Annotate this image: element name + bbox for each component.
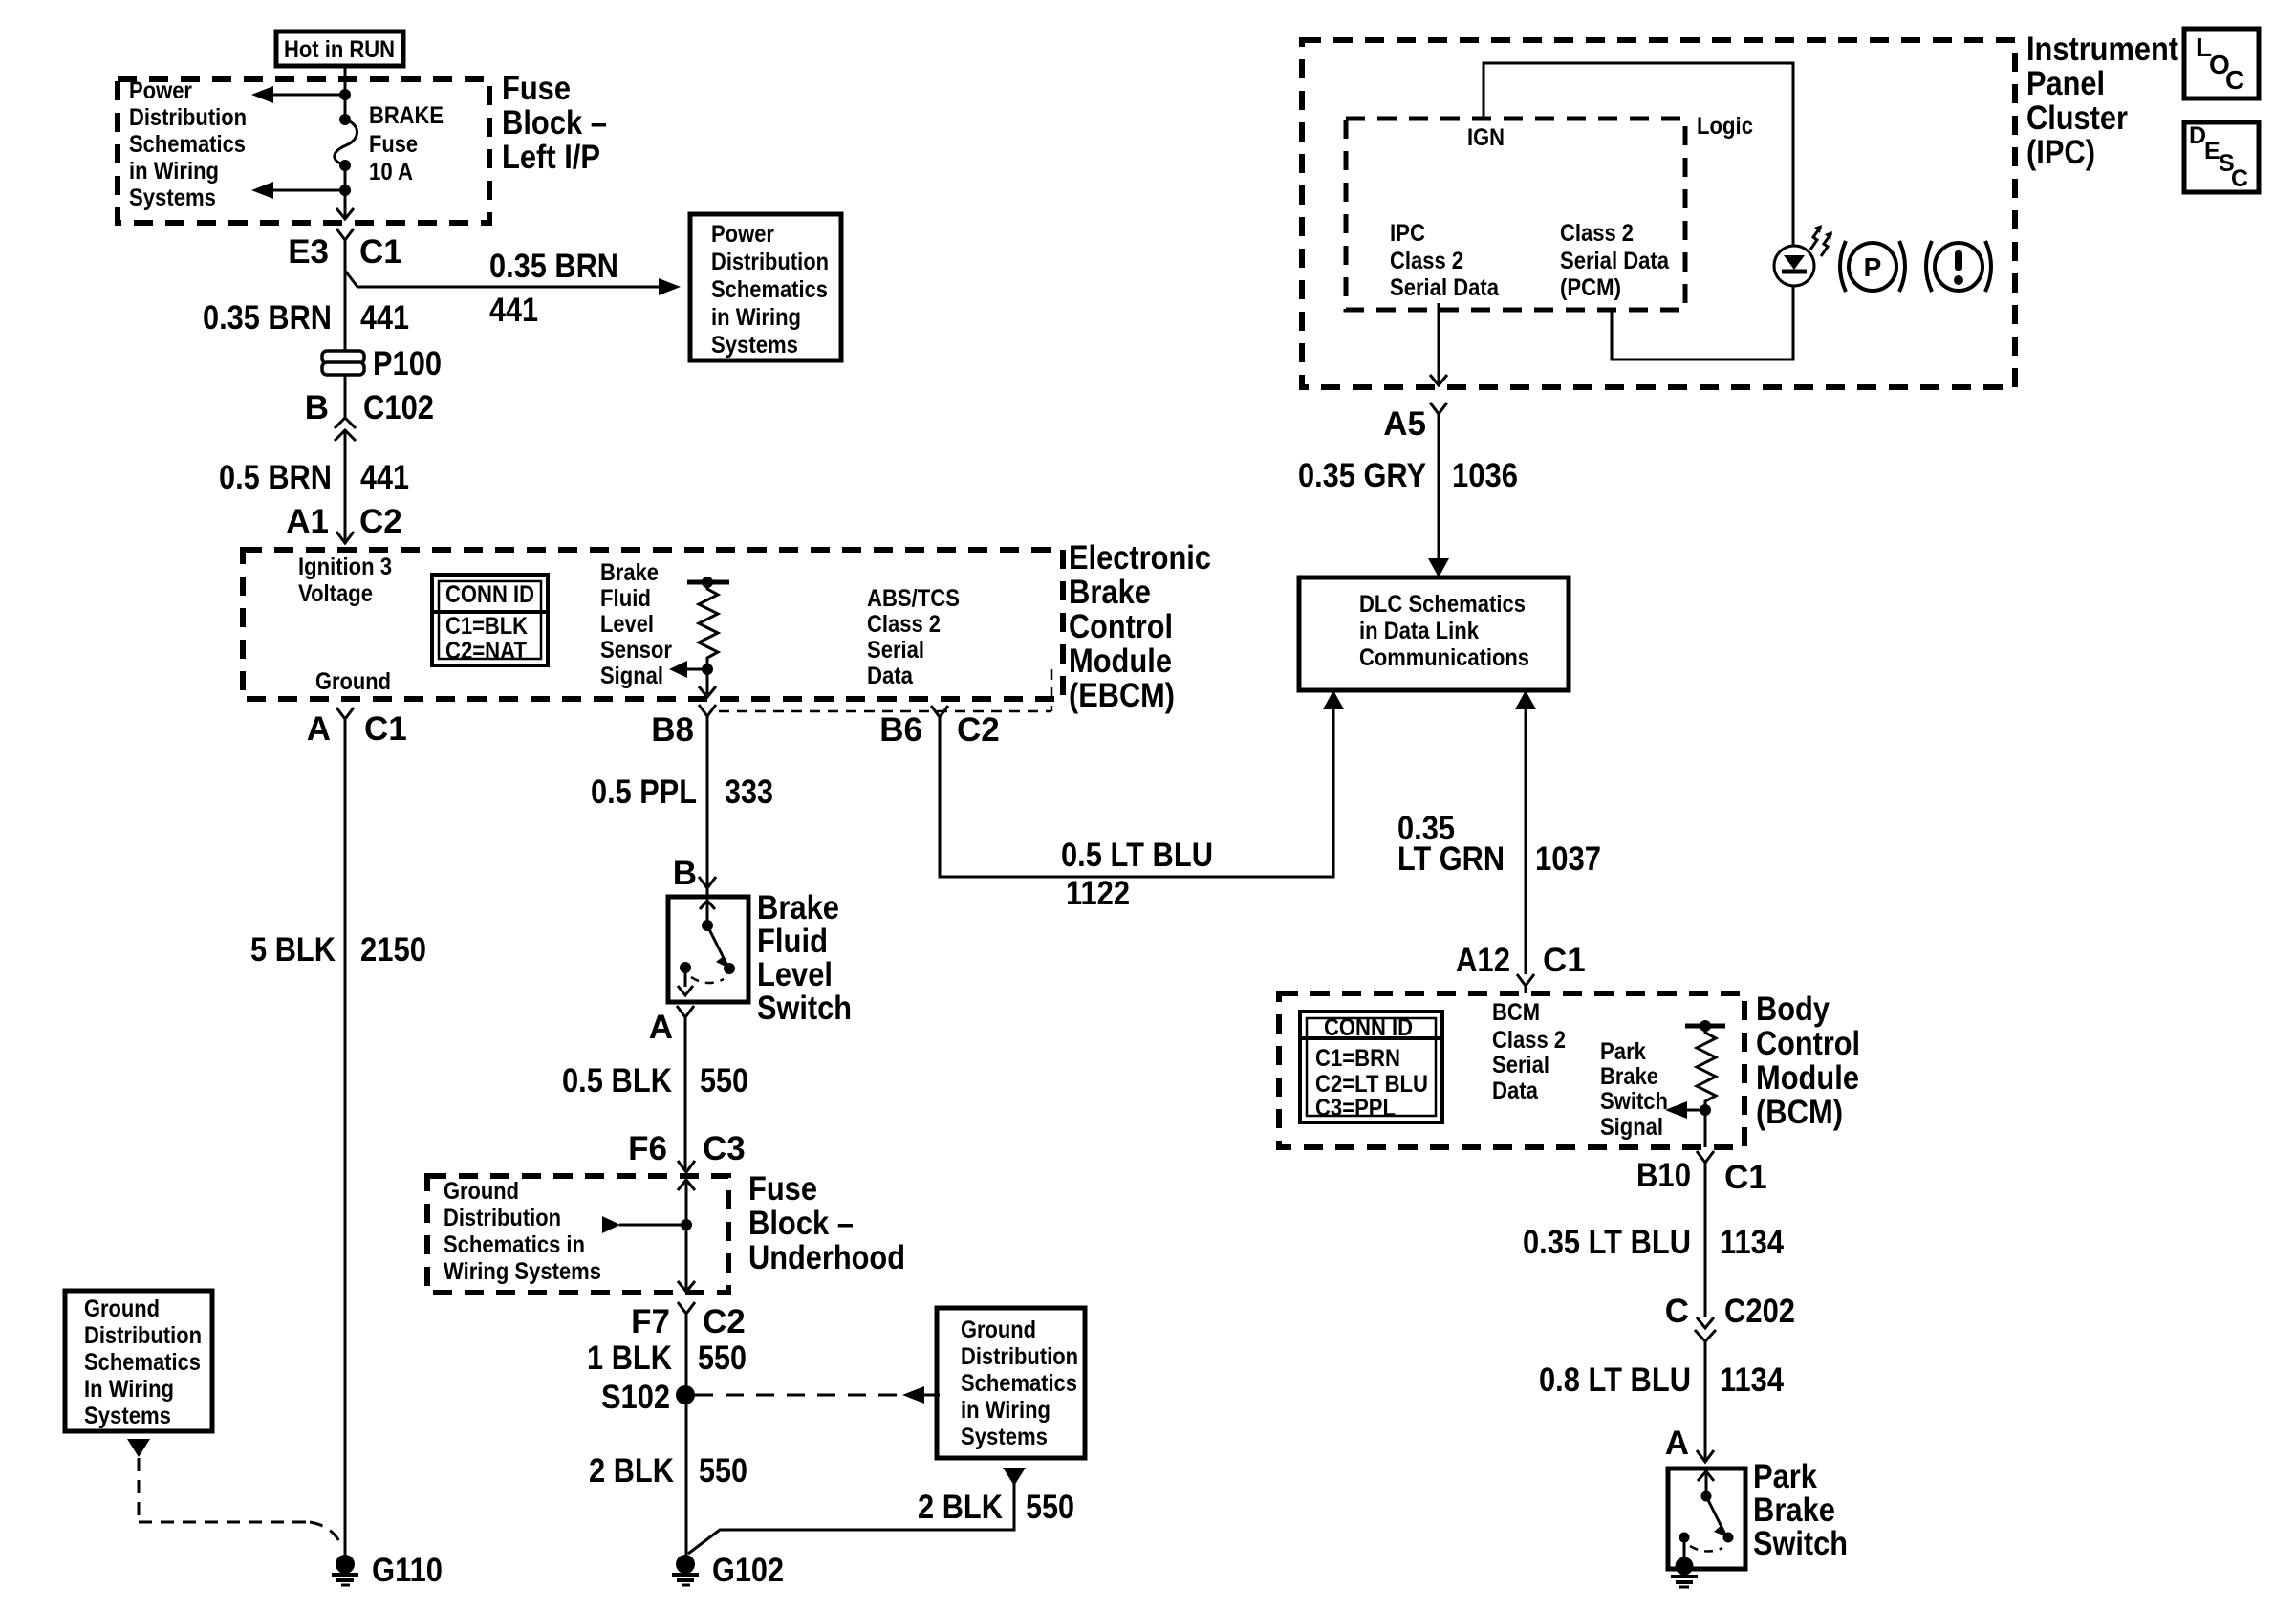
svg-text:C2: C2 (359, 503, 402, 540)
label 2 BLK 550 (right) (918, 1489, 1074, 1526)
logic supply wire loop through LED (1484, 63, 1793, 359)
svg-text:C1=BLK: C1=BLK (445, 613, 528, 640)
Class 2 Serial Data (PCM) pin label (1560, 220, 1670, 301)
IPC title (2026, 31, 2178, 171)
svg-text:Distribution: Distribution (84, 1322, 202, 1349)
svg-text:Signal: Signal (600, 663, 663, 689)
svg-text:Ground: Ground (84, 1295, 160, 1322)
wire A12 to DLC (0.35 LT GRN 1037) (1515, 690, 1536, 974)
svg-text:(IPC): (IPC) (2026, 134, 2095, 171)
left arrow 1 to power distribution (251, 86, 351, 103)
dashed reference wire from S102 (695, 1386, 940, 1404)
svg-text:in Data Link: in Data Link (1359, 618, 1479, 644)
svg-text:0.35 GRY: 0.35 GRY (1298, 457, 1426, 494)
brake fluid level sensor resistor (669, 577, 729, 697)
svg-text:B10: B10 (1636, 1157, 1691, 1194)
LED light arrows (1810, 225, 1832, 256)
svg-text:Power: Power (129, 77, 192, 104)
wire F7 down to G102 (685, 1314, 688, 1557)
wire B6 to DLC (0.5 LT BLU 1122) (940, 690, 1344, 877)
down arrow at fuse block exit (336, 190, 354, 219)
Park Brake Switch title (1753, 1458, 1848, 1562)
Fuse Block - Left I/P dashed box (118, 79, 489, 223)
BCM Class 2 Serial Data pin label (1492, 999, 1566, 1104)
svg-text:Schematics in: Schematics in (444, 1231, 585, 1258)
svg-text:(BCM): (BCM) (1756, 1094, 1843, 1131)
svg-text:Fuse: Fuse (748, 1170, 817, 1208)
svg-text:Class 2: Class 2 (1390, 248, 1463, 274)
ground G102 (672, 1552, 784, 1589)
wire switch A down to F6 (684, 1017, 687, 1170)
svg-text:441: 441 (360, 459, 409, 496)
svg-text:A: A (649, 1009, 673, 1046)
svg-text:in Wiring: in Wiring (961, 1397, 1051, 1424)
svg-text:Schematics: Schematics (711, 276, 828, 303)
svg-text:Fuse: Fuse (502, 70, 571, 107)
Brake Fluid Level Switch title (757, 889, 852, 1027)
connector B (switch) (673, 855, 716, 897)
wire A C1 down to G110 (344, 719, 347, 1557)
svg-text:0.5 BRN: 0.5 BRN (219, 459, 332, 496)
CONN ID table (EBCM) (432, 575, 548, 665)
svg-text:550: 550 (699, 1452, 747, 1490)
svg-text:Control: Control (1756, 1025, 1860, 1062)
svg-text:Underhood: Underhood (748, 1239, 905, 1276)
svg-text:Ground: Ground (444, 1178, 519, 1205)
svg-text:Serial: Serial (1492, 1052, 1549, 1078)
svg-text:10 A: 10 A (369, 159, 413, 185)
label 0.5 BLK 550 (562, 1062, 748, 1099)
svg-text:IGN: IGN (1467, 124, 1505, 151)
svg-text:441: 441 (489, 292, 538, 329)
IPC Class 2 Serial Data pin label (1390, 220, 1500, 301)
svg-text:550: 550 (700, 1062, 748, 1099)
svg-text:Ground: Ground (315, 668, 391, 695)
svg-text:550: 550 (1026, 1489, 1074, 1526)
branch wire 441 to power distribution box (345, 271, 681, 295)
svg-text:Park: Park (1753, 1458, 1817, 1495)
svg-text:2150: 2150 (360, 931, 426, 969)
connector C C202 (1665, 1293, 1795, 1341)
svg-text:0.5 LT BLU: 0.5 LT BLU (1061, 837, 1213, 874)
fuse BRAKE 10A symbol (335, 114, 357, 190)
connector B8 (651, 705, 716, 749)
svg-text:Brake: Brake (1753, 1491, 1835, 1529)
svg-text:Class 2: Class 2 (867, 611, 941, 638)
ABS/TCS Class 2 Serial Data pin label (867, 585, 960, 689)
svg-text:Ignition 3: Ignition 3 (298, 554, 392, 580)
Hot in RUN label box (276, 32, 403, 66)
wire from Hot in RUN into fuse block (344, 66, 347, 120)
connector A (switch) (649, 1006, 694, 1046)
svg-text:F7: F7 (631, 1303, 670, 1340)
label 0.5 PPL 333 (591, 773, 773, 811)
EBCM title (1069, 539, 1211, 714)
svg-text:CONN ID: CONN ID (445, 581, 534, 608)
DESC reference box (2184, 122, 2259, 192)
dashed ground reference wire to G110 (139, 1458, 341, 1545)
BCM title (1756, 991, 1860, 1131)
svg-text:1037: 1037 (1535, 840, 1601, 878)
svg-text:Schematics: Schematics (84, 1349, 201, 1376)
svg-text:C1: C1 (359, 233, 402, 271)
svg-text:B6: B6 (879, 711, 922, 749)
svg-text:Distribution: Distribution (444, 1205, 561, 1231)
svg-text:Schematics: Schematics (129, 131, 246, 158)
connector B6 C2 (879, 706, 1000, 749)
IPC logic inner dashed box (1346, 119, 1685, 310)
svg-text:Electronic: Electronic (1069, 539, 1211, 577)
svg-text:Left I/P: Left I/P (502, 139, 600, 176)
svg-text:C1: C1 (1543, 942, 1586, 979)
svg-text:1134: 1134 (1720, 1224, 1784, 1261)
svg-text:1134: 1134 (1720, 1361, 1784, 1399)
svg-text:C: C (2225, 65, 2244, 95)
svg-text:Switch: Switch (1753, 1525, 1848, 1562)
svg-text:0.35 BRN: 0.35 BRN (489, 248, 618, 285)
svg-text:Sensor: Sensor (600, 637, 672, 664)
svg-text:550: 550 (698, 1339, 747, 1377)
svg-text:0.5 BLK: 0.5 BLK (562, 1062, 672, 1099)
Fuse Block - Underhood dashed box (427, 1176, 728, 1293)
grommet P100 (322, 345, 442, 382)
svg-text:In Wiring: In Wiring (84, 1376, 174, 1403)
svg-text:2 BLK: 2 BLK (589, 1452, 674, 1490)
svg-text:1036: 1036 (1452, 457, 1518, 494)
svg-text:B: B (305, 389, 329, 426)
svg-text:Class 2: Class 2 (1492, 1027, 1566, 1054)
down arrow below left ground box (127, 1439, 150, 1457)
connector A5 (1383, 403, 1447, 443)
svg-text:Instrument: Instrument (2026, 31, 2178, 68)
connector A (park brake switch) (1665, 1425, 1714, 1462)
svg-text:Module: Module (1069, 642, 1172, 680)
svg-text:Distribution: Distribution (129, 104, 247, 131)
connector A C1 (EBCM ground) (307, 708, 407, 748)
ground G110 (332, 1552, 443, 1589)
Body Control Module dashed box (1279, 993, 1744, 1147)
svg-text:Logic: Logic (1697, 113, 1753, 140)
svg-text:G110: G110 (372, 1552, 443, 1589)
svg-text:LT GRN: LT GRN (1397, 840, 1505, 878)
inner dashed connector line (EBCM C2) (719, 669, 1051, 711)
park telltale indicator (P) (1840, 241, 1905, 292)
wire IPC class2 output to A5 (1430, 303, 1447, 385)
svg-text:Wiring Systems: Wiring Systems (444, 1258, 601, 1285)
svg-text:Block –: Block – (502, 104, 607, 142)
wire through underhood fuse block (602, 1180, 695, 1292)
svg-text:(EBCM): (EBCM) (1069, 677, 1175, 714)
svg-text:C2: C2 (703, 1303, 746, 1340)
svg-text:Systems: Systems (129, 185, 216, 211)
svg-text:IPC: IPC (1390, 220, 1425, 247)
connector A1 C2 at EBCM (286, 503, 402, 543)
svg-text:Serial Data: Serial Data (1560, 248, 1670, 274)
Instrument Panel Cluster dashed box (1302, 40, 2015, 387)
label 0.35 BRN 441 (main wire) (203, 299, 409, 337)
label 0.8 LT BLU 1134 (1539, 1361, 1784, 1399)
svg-text:Data: Data (867, 663, 914, 689)
svg-text:C1: C1 (1724, 1159, 1767, 1196)
svg-text:Distribution: Distribution (961, 1343, 1078, 1370)
svg-text:Brake: Brake (1600, 1063, 1658, 1090)
svg-text:Distribution: Distribution (711, 249, 829, 275)
svg-text:C1=BRN: C1=BRN (1315, 1045, 1400, 1072)
park brake switch ground (1671, 1577, 1698, 1587)
Power Distribution Schematics in Wiring Systems text (fuse block) (129, 77, 247, 211)
svg-text:0.35 BRN: 0.35 BRN (203, 299, 332, 337)
svg-text:Serial Data: Serial Data (1390, 274, 1500, 301)
svg-text:Brake: Brake (1069, 574, 1151, 611)
telltale LED (1774, 246, 1814, 286)
svg-text:Data: Data (1492, 1078, 1539, 1104)
svg-text:0.5 PPL: 0.5 PPL (591, 773, 697, 811)
label 0.35 GRY 1036 (1298, 457, 1518, 494)
connector B10 C1 (1636, 1151, 1767, 1196)
svg-text:Fuse: Fuse (369, 131, 418, 158)
CONN ID table (BCM) (1300, 1012, 1442, 1122)
svg-text:441: 441 (360, 299, 409, 337)
svg-text:Panel: Panel (2026, 65, 2105, 102)
svg-text:C: C (1665, 1293, 1689, 1330)
svg-text:F6: F6 (628, 1130, 667, 1167)
svg-text:B: B (673, 855, 697, 892)
svg-text:G102: G102 (712, 1552, 784, 1589)
park brake switch signal resistor (BCM) (1665, 1020, 1725, 1147)
connector E3 C1 (288, 229, 402, 271)
LOC reference box (2184, 29, 2259, 98)
svg-text:5 BLK: 5 BLK (250, 931, 336, 969)
wire A5 down to DLC box (1428, 414, 1449, 577)
wire B8 down to switch (706, 716, 709, 888)
svg-text:Brake: Brake (600, 559, 659, 586)
svg-text:P100: P100 (373, 345, 442, 382)
svg-text:C102: C102 (363, 389, 434, 426)
Park Brake Switch Signal pin label (1600, 1038, 1668, 1141)
svg-text:Ground: Ground (961, 1317, 1036, 1343)
park brake switch contacts (1676, 1471, 1734, 1576)
svg-text:1 BLK: 1 BLK (587, 1339, 672, 1377)
down arrow below right ground box (1003, 1468, 1026, 1486)
Ground Distribution Schematics box (right) (937, 1308, 1085, 1458)
splice S102 (601, 1379, 695, 1416)
Park Brake Switch box (1668, 1469, 1745, 1569)
svg-text:Body: Body (1756, 991, 1830, 1028)
brake warning indicator (!) (1926, 241, 1991, 292)
svg-text:P: P (1864, 252, 1882, 282)
svg-text:0.8 LT BLU: 0.8 LT BLU (1539, 1361, 1691, 1399)
svg-text:B8: B8 (651, 711, 694, 749)
svg-text:0.35 LT BLU: 0.35 LT BLU (1523, 1224, 1691, 1261)
Brake Fluid Level Switch box (668, 897, 748, 1002)
connector F7 C2 (631, 1302, 746, 1340)
svg-text:Power: Power (711, 221, 774, 248)
wire 2 BLK from right box to G102 (688, 1484, 1014, 1554)
wire P100 to C102 (344, 375, 347, 419)
label 0.35 LT GRN 1037 (1397, 810, 1601, 878)
svg-text:in Wiring: in Wiring (129, 158, 219, 185)
svg-text:ABS/TCS: ABS/TCS (867, 585, 960, 612)
label 5 BLK 2150 (250, 931, 426, 969)
EBCM dashed box (243, 550, 1063, 699)
svg-text:Level: Level (600, 611, 654, 638)
svg-text:Voltage: Voltage (298, 580, 373, 607)
svg-text:S102: S102 (601, 1379, 670, 1416)
Fuse Block - Underhood title (748, 1170, 905, 1276)
svg-text:Level: Level (757, 956, 833, 993)
svg-text:Class 2: Class 2 (1560, 220, 1634, 247)
svg-text:A12: A12 (1456, 942, 1510, 979)
connector A12 C1 (1456, 942, 1586, 993)
svg-text:Block –: Block – (748, 1205, 854, 1242)
svg-text:CONN ID: CONN ID (1324, 1014, 1413, 1041)
svg-text:A1: A1 (286, 503, 329, 540)
svg-text:Brake: Brake (757, 889, 839, 926)
connector B C102 (305, 389, 434, 441)
brake fluid level switch contacts (678, 901, 735, 995)
svg-text:C3: C3 (703, 1130, 746, 1167)
svg-text:BCM: BCM (1492, 999, 1540, 1026)
svg-text:A5: A5 (1383, 405, 1426, 443)
wire C202 down to park brake switch (1704, 1341, 1707, 1462)
svg-text:Switch: Switch (757, 990, 852, 1027)
svg-text:Hot in RUN: Hot in RUN (284, 36, 395, 63)
connector F6 C3 (628, 1130, 746, 1172)
wire E3 down to P100 (344, 240, 347, 353)
svg-text:(PCM): (PCM) (1560, 274, 1621, 301)
svg-text:C: C (2231, 165, 2248, 192)
svg-text:Fluid: Fluid (600, 585, 651, 612)
svg-text:2 BLK: 2 BLK (918, 1489, 1003, 1526)
wire C102 to A1 (344, 430, 347, 543)
svg-text:Module: Module (1756, 1059, 1859, 1097)
svg-text:333: 333 (725, 773, 773, 811)
svg-text:Switch: Switch (1600, 1088, 1668, 1115)
label 1 BLK 550 (587, 1339, 747, 1377)
svg-text:C202: C202 (1724, 1293, 1795, 1330)
svg-text:E3: E3 (288, 233, 329, 271)
svg-text:Systems: Systems (711, 332, 798, 359)
svg-text:A: A (307, 710, 331, 748)
Ground Distribution Schematics box (left) (65, 1291, 212, 1431)
Ground Distribution Schematics in Wiring Systems text (underhood) (444, 1178, 601, 1285)
svg-text:in Wiring: in Wiring (711, 304, 801, 331)
label 2 BLK 550 (left) (589, 1452, 747, 1490)
DLC Schematics box (1299, 577, 1569, 690)
svg-text:C2=NAT: C2=NAT (445, 638, 527, 664)
svg-text:Fluid: Fluid (757, 923, 828, 960)
Power Distribution Schematics box (top) (690, 214, 841, 360)
svg-text:DLC Schematics: DLC Schematics (1359, 591, 1526, 618)
svg-text:Systems: Systems (84, 1403, 171, 1429)
svg-text:C1: C1 (364, 710, 407, 748)
svg-text:Park: Park (1600, 1038, 1646, 1065)
svg-text:Systems: Systems (961, 1424, 1048, 1450)
svg-text:BRAKE: BRAKE (369, 102, 444, 129)
wire B10 down to C202 (1704, 1163, 1707, 1317)
svg-text:C3=PPL: C3=PPL (1315, 1095, 1396, 1121)
Fuse Block - Left I/P title (502, 70, 607, 176)
Brake Fluid Level Sensor Signal pin label (600, 559, 672, 689)
fuse label BRAKE Fuse 10 A (369, 102, 444, 185)
svg-text:Schematics: Schematics (961, 1370, 1077, 1397)
svg-text:Signal: Signal (1600, 1114, 1663, 1141)
svg-text:Control: Control (1069, 608, 1173, 645)
svg-text:Serial: Serial (867, 637, 924, 664)
svg-text:Cluster: Cluster (2026, 99, 2128, 137)
svg-text:C2=LT BLU: C2=LT BLU (1315, 1071, 1428, 1098)
svg-text:A: A (1665, 1425, 1689, 1462)
svg-text:C2: C2 (957, 711, 1000, 749)
left arrow 2 to power distribution (251, 182, 351, 199)
Ignition 3 Voltage pin label (298, 554, 392, 607)
label 0.5 BRN 441 (219, 459, 409, 496)
label 0.35 LT BLU 1134 (1523, 1224, 1784, 1261)
svg-text:1122: 1122 (1066, 875, 1130, 912)
svg-text:Communications: Communications (1359, 644, 1529, 671)
